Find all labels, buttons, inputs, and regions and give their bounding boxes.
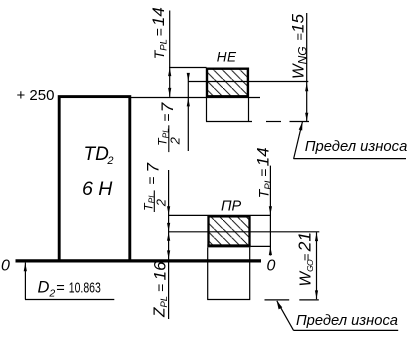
- svg-text:=: =: [144, 177, 160, 185]
- svg-text:16: 16: [151, 261, 170, 280]
- svg-text:14: 14: [254, 147, 273, 166]
- svg-text:TD2: TD2: [84, 144, 114, 167]
- svg-text:2: 2: [168, 136, 183, 145]
- svg-text:7: 7: [143, 163, 162, 173]
- svg-text:0: 0: [1, 258, 10, 275]
- svg-text:=: =: [159, 114, 175, 122]
- svg-text:D2=10.863: D2=10.863: [38, 279, 101, 300]
- svg-text:=: =: [299, 253, 314, 261]
- svg-text:+ 250: + 250: [17, 87, 55, 104]
- svg-text:Предел износа: Предел износа: [296, 312, 398, 329]
- svg-text:=: =: [153, 284, 169, 292]
- svg-text:=: =: [256, 169, 272, 177]
- svg-text:21: 21: [295, 232, 315, 252]
- svg-text:=: =: [151, 28, 167, 36]
- svg-text:TPL: TPL: [151, 39, 170, 59]
- svg-text:НЕ: НЕ: [217, 49, 237, 64]
- svg-text:ZPL: ZPL: [152, 296, 170, 318]
- svg-text:Предел износа: Предел износа: [305, 138, 408, 155]
- svg-text:TPL: TPL: [256, 178, 275, 198]
- svg-text:6 H: 6 H: [82, 178, 113, 200]
- svg-text:0: 0: [267, 258, 276, 275]
- svg-text:7: 7: [158, 102, 177, 112]
- svg-text:14: 14: [149, 7, 168, 26]
- svg-text:15: 15: [289, 14, 308, 33]
- svg-text:2: 2: [154, 198, 169, 207]
- svg-text:WNG: WNG: [291, 46, 310, 79]
- svg-text:WGO: WGO: [298, 259, 316, 286]
- svg-text:ПР: ПР: [221, 199, 242, 215]
